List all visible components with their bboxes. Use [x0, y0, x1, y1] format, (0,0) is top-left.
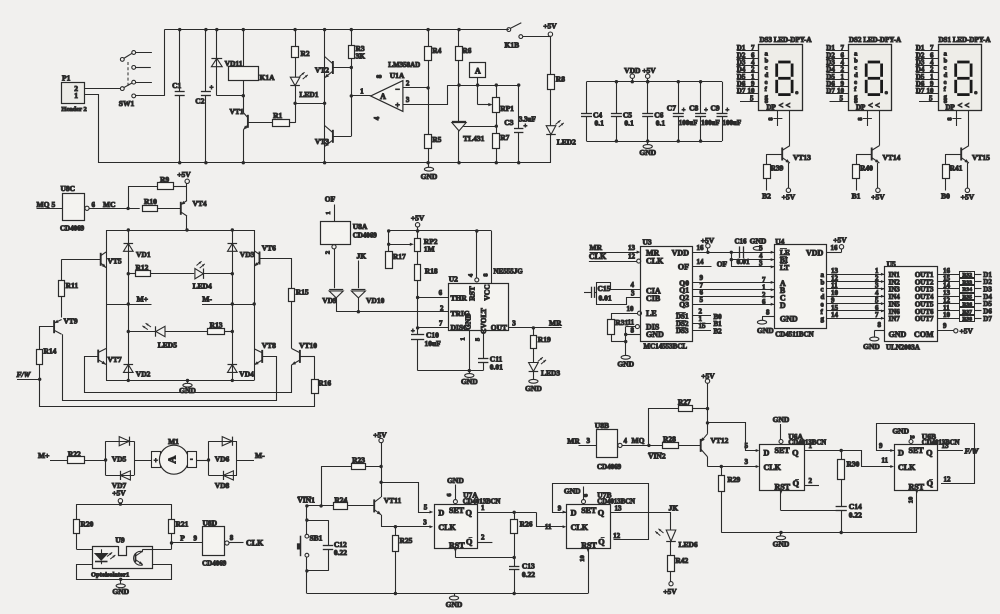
svg-text:VD6: VD6 [215, 455, 230, 464]
svg-text:3K: 3K [356, 52, 366, 61]
wire VT7 base loop [85, 357, 292, 393]
wire display DS1 to transistor [968, 111, 970, 146]
resistor R20 [76, 504, 78, 520]
wire U6A RST [780, 491, 782, 511]
wire VDD rail [587, 81, 723, 83]
wire Q0-Q3 bus to U4 [692, 282, 774, 284]
svg-text:D: D [898, 449, 904, 458]
svg-text:RST: RST [581, 541, 597, 550]
transistor VT12 [700, 439, 702, 452]
transistor VT6 [259, 252, 261, 265]
resistor R42 [670, 541, 672, 556]
svg-text:OF: OF [717, 259, 728, 268]
svg-text:5: 5 [745, 442, 749, 450]
svg-text:LE: LE [646, 309, 657, 318]
wire VIN1 node [307, 505, 334, 507]
capacitor C10 10uF [411, 334, 424, 336]
svg-text:0.22: 0.22 [334, 548, 347, 557]
svg-text:b: b [854, 58, 858, 65]
svg-text:11: 11 [545, 523, 552, 531]
svg-text:U9: U9 [115, 536, 124, 545]
svg-text:RP1: RP1 [500, 104, 514, 113]
resistor R3 3K [351, 30, 353, 45]
svg-text:VT12: VT12 [711, 436, 729, 445]
svg-text:M+: M+ [137, 295, 148, 304]
wire SW1 up to top rail [164, 30, 166, 96]
svg-text:GND: GND [617, 360, 634, 369]
resistor R27 [649, 409, 679, 446]
svg-text:R18: R18 [425, 267, 438, 276]
transistor VT8 [254, 304, 256, 380]
LED LED6 [670, 512, 672, 530]
svg-text:DS3: DS3 [676, 327, 689, 335]
svg-text:R12: R12 [136, 263, 149, 272]
resistor R5 [425, 135, 432, 149]
wire OUT pin3 MR net [509, 327, 562, 329]
+5V VDD terminals [630, 74, 634, 78]
diode VD3 [232, 230, 234, 304]
svg-text:Q: Q [466, 509, 473, 518]
resistor R30 [841, 451, 843, 460]
svg-text:2: 2 [481, 534, 485, 542]
svg-text:MQ: MQ [632, 436, 645, 445]
wire THR pin6 [418, 297, 448, 299]
wire RST pin4 to +5V rail [476, 231, 478, 278]
svg-text:R38: R38 [962, 317, 972, 323]
shunt regulator TL431 [458, 85, 460, 121]
svg-text:DS2 LED-DPY-A: DS2 LED-DPY-A [849, 36, 901, 44]
svg-text:CD4069: CD4069 [353, 232, 378, 240]
resistor R29 [721, 467, 723, 476]
svg-text:e: e [854, 79, 857, 86]
capacitor C7 100uF [678, 82, 680, 114]
capacitor C12 0.22 [307, 520, 328, 522]
svg-text:VD9: VD9 [322, 296, 337, 305]
diode VD10 [351, 289, 365, 291]
resistor R4 [428, 30, 430, 47]
svg-text:SB1: SB1 [310, 534, 323, 543]
display DS1 common pin stub [956, 111, 958, 126]
svg-text:LT: LT [780, 263, 789, 272]
svg-text:+5V: +5V [663, 587, 677, 596]
wire U8C output MC [89, 208, 140, 210]
svg-text:−: − [395, 85, 400, 94]
svg-text:IN7: IN7 [889, 315, 901, 323]
svg-text:VT15: VT15 [972, 153, 990, 162]
+5V at U3 VDD [706, 244, 710, 248]
svg-text:4: 4 [631, 281, 635, 289]
resistor R9 [128, 186, 130, 208]
wire opto top rail [77, 504, 172, 506]
svg-text:+5V: +5V [701, 371, 715, 380]
svg-text:6: 6 [92, 201, 96, 209]
transistor VT9 [61, 297, 63, 318]
net label CLK output [229, 542, 244, 544]
svg-text:CD4069: CD4069 [597, 463, 622, 471]
svg-text:D: D [780, 301, 786, 310]
svg-text:JK: JK [357, 252, 367, 261]
capacitor C6 0.1 [647, 82, 649, 114]
wire left high-side vertical [106, 230, 108, 304]
svg-text:Optoisolator1: Optoisolator1 [91, 572, 129, 579]
wire VT8 base loop [63, 334, 277, 400]
svg-text:d: d [765, 72, 769, 79]
wire R17 tap to RP2 wiper [389, 244, 411, 246]
svg-text:COM: COM [914, 330, 934, 339]
svg-text:U8C: U8C [61, 184, 76, 193]
svg-text:13: 13 [942, 442, 950, 450]
resistor R28 [663, 443, 679, 449]
svg-text:A: A [475, 66, 481, 75]
resistor R23 [321, 466, 351, 468]
svg-text:0.1: 0.1 [656, 118, 666, 127]
wire op-amp output pin1 [351, 95, 370, 97]
svg-text:+5V: +5V [782, 193, 796, 202]
capacitor C9 100uF [722, 82, 724, 114]
wire P1 pin1 down to bottom rail [84, 95, 551, 163]
svg-text:R22: R22 [68, 450, 81, 459]
svg-text:VT4: VT4 [193, 199, 207, 208]
svg-text:+5V: +5V [833, 236, 847, 245]
svg-text:6: 6 [439, 289, 443, 297]
resistor R40 [856, 154, 871, 156]
svg-text:LED6: LED6 [679, 540, 698, 549]
svg-text:OUT7: OUT7 [915, 315, 934, 323]
capacitor C4 0.1 [586, 82, 588, 114]
resistor R6 [458, 30, 460, 47]
svg-text:C2: C2 [195, 97, 204, 106]
svg-text:+5V: +5V [960, 327, 974, 336]
pushbutton SB1 [306, 506, 308, 534]
transistor VT1 [247, 115, 249, 128]
svg-text:Q3: Q3 [679, 300, 689, 309]
svg-text:14: 14 [697, 258, 705, 266]
LED LED5 [128, 331, 155, 333]
svg-text:1M: 1M [424, 245, 435, 254]
svg-text:R29: R29 [727, 475, 740, 484]
svg-text:SET: SET [581, 506, 597, 515]
svg-text:R28: R28 [663, 435, 676, 444]
svg-text:MC: MC [103, 200, 116, 209]
svg-text:Q: Q [926, 449, 933, 458]
ground under U4 [757, 320, 766, 324]
resistor R17 [388, 231, 390, 252]
wire OF pin14 [692, 266, 711, 268]
transistor VT7 [106, 304, 108, 380]
connector P1 Header 2 [62, 83, 85, 104]
transistor VT15 [960, 148, 962, 161]
svg-text:Q: Q [793, 479, 800, 488]
svg-text:C16: C16 [735, 238, 748, 246]
svg-text:R9: R9 [160, 175, 169, 184]
svg-text:SET: SET [449, 506, 465, 515]
ground U6 rail [780, 533, 782, 537]
wire +5V to U4 BI LT pins [731, 252, 733, 267]
resistor R41 [946, 154, 961, 156]
transistor VT4 [180, 202, 182, 215]
svg-text:MC14553BCL: MC14553BCL [644, 343, 688, 351]
svg-text:3: 3 [759, 259, 763, 267]
wire VT12 emitter to U6A CLK [708, 466, 757, 468]
svg-text:C8: C8 [689, 103, 698, 112]
LED LED3 [533, 349, 535, 362]
svg-text:VD8: VD8 [215, 481, 230, 490]
wire U7B D toggle loop [553, 484, 649, 540]
wire bottom ground rail [307, 593, 588, 595]
svg-text:CLK: CLK [246, 539, 264, 548]
+5V at VT4 [185, 179, 189, 183]
svg-text:< <: < < [868, 100, 880, 110]
svg-text:4: 4 [373, 116, 381, 120]
svg-text:R5: R5 [432, 135, 441, 144]
svg-text:VD5: VD5 [112, 455, 127, 464]
+5V supply top [548, 36, 550, 38]
svg-text:4: 4 [624, 437, 628, 445]
wire U8A out to VD9 [334, 249, 336, 288]
svg-text:+5V: +5V [543, 22, 557, 31]
ground under 555 [469, 371, 471, 374]
wire U6B RST down [916, 491, 918, 533]
svg-text:VCC: VCC [483, 284, 492, 300]
LED LED2 [546, 134, 556, 136]
ground under R5 [428, 163, 430, 168]
wire cap bottom rail [587, 141, 723, 143]
wire right high-side vertical [254, 230, 256, 304]
svg-text:R27: R27 [678, 398, 691, 407]
wire LED1 node to VT2 chain [295, 103, 325, 105]
ground under H-bridge [187, 380, 189, 383]
svg-text:C15: C15 [598, 284, 611, 293]
wire U6A Qbar stub [804, 485, 819, 487]
svg-text:R1: R1 [273, 111, 282, 120]
svg-text:Q: Q [927, 479, 934, 488]
op-amp U1A LM358AD [371, 81, 403, 112]
svg-text:OUT: OUT [491, 323, 507, 332]
svg-text:R17: R17 [393, 252, 406, 261]
svg-text:0.1: 0.1 [595, 118, 605, 127]
svg-text:DP: DP [767, 104, 777, 112]
meter A box [470, 63, 486, 78]
svg-text:VT8: VT8 [262, 341, 276, 350]
wire reference rail [448, 85, 519, 87]
svg-text:LED4: LED4 [193, 282, 212, 291]
svg-text:GND: GND [773, 415, 790, 424]
wire VT6 base to R15 [260, 258, 292, 260]
wire VT10 base to R16 [300, 356, 315, 358]
svg-text:VD1: VD1 [136, 250, 151, 259]
svg-text:100uF: 100uF [723, 119, 742, 127]
resistor R31 [608, 320, 615, 335]
svg-text:+: + [524, 123, 528, 130]
svg-text:R13: R13 [210, 321, 223, 330]
svg-text:M+: M+ [38, 451, 49, 460]
svg-text:3.3uF: 3.3uF [519, 116, 536, 124]
capacitor C2 [205, 30, 207, 92]
resistor R1 [248, 122, 272, 124]
resistor R39 [767, 154, 782, 156]
svg-text:U8A: U8A [353, 222, 368, 231]
svg-text:MQ: MQ [37, 200, 50, 209]
svg-text:F/W: F/W [17, 370, 32, 379]
wire VDD pin16 to +5V [692, 252, 774, 254]
svg-text:VT6: VT6 [262, 244, 276, 253]
svg-text:GND: GND [889, 330, 907, 339]
wire top supply rail [164, 29, 508, 31]
svg-text:U8B: U8B [595, 421, 609, 430]
transistor VT5 [100, 253, 102, 266]
capacitor C15 0.01 oscillator loop [610, 289, 641, 291]
svg-text:3: 3 [512, 320, 516, 328]
svg-text:+: + [154, 457, 158, 465]
wire VT11 collector to D pin [381, 483, 430, 513]
svg-text:13: 13 [615, 505, 623, 513]
display DS3 common pin stub [777, 111, 779, 126]
svg-text:100uF: 100uF [701, 119, 720, 127]
svg-text:b: b [765, 58, 769, 65]
svg-text:VT9: VT9 [64, 317, 78, 326]
svg-text:1: 1 [360, 88, 364, 96]
svg-text:11: 11 [881, 457, 888, 465]
svg-text:DP: DP [946, 104, 956, 112]
svg-text:9: 9 [879, 442, 883, 450]
svg-text:GND: GND [639, 148, 656, 157]
wire pin3 to reference rail [403, 85, 448, 104]
svg-text:+5V: +5V [961, 193, 975, 202]
svg-text:P: P [180, 534, 185, 543]
svg-text:1: 1 [460, 337, 467, 340]
resistor R25 [395, 527, 397, 536]
svg-text:GND: GND [421, 172, 438, 181]
svg-text:CLK: CLK [438, 523, 456, 532]
svg-text:5: 5 [424, 504, 428, 512]
svg-text:R24: R24 [334, 495, 347, 504]
svg-text:+: + [210, 84, 214, 92]
svg-text:VT5: VT5 [108, 257, 122, 266]
svg-text:R42: R42 [675, 556, 688, 565]
svg-text:0.1: 0.1 [624, 118, 634, 127]
wire U6A Q to R30 and U6B CLK [804, 450, 841, 452]
svg-text:R11: R11 [66, 281, 79, 290]
transistor VT11 [373, 499, 375, 512]
ground under R31 [621, 355, 630, 359]
wire GND pin1 [469, 331, 471, 371]
svg-text:GND: GND [112, 587, 129, 596]
svg-text:12: 12 [613, 532, 621, 540]
resistor R22 [68, 457, 85, 464]
svg-text:R40: R40 [860, 164, 873, 173]
svg-text:SW1: SW1 [119, 99, 135, 108]
svg-text:R35: R35 [962, 295, 972, 301]
svg-text:GND: GND [780, 315, 798, 324]
svg-text:RST: RST [909, 482, 925, 491]
svg-text:12: 12 [628, 253, 636, 261]
wire ground line U6 [721, 532, 917, 534]
ground bottom rail [454, 594, 456, 597]
svg-text:R2: R2 [301, 49, 310, 58]
svg-text:7: 7 [439, 320, 443, 328]
svg-text:R10: R10 [144, 197, 157, 206]
svg-text:VD3: VD3 [240, 250, 255, 259]
+5V below VT13 [786, 188, 790, 192]
svg-text:VD2: VD2 [136, 370, 151, 379]
wire VT2/VT3 vertical [324, 30, 326, 163]
wire opto bottom loop [77, 565, 172, 580]
resistor R10 [143, 206, 158, 212]
diode VD4 [232, 304, 234, 380]
svg-text:10: 10 [627, 305, 635, 313]
svg-text:VT14: VT14 [883, 153, 901, 162]
wire U5 GND pin8 [874, 330, 884, 332]
resistor R2 [295, 30, 297, 47]
svg-text:VT3: VT3 [315, 137, 329, 146]
svg-text:8: 8 [878, 321, 882, 329]
capacitor C13 0.22 [509, 566, 519, 568]
svg-text:C9: C9 [711, 103, 720, 112]
svg-text:1: 1 [325, 211, 332, 214]
svg-text:10: 10 [908, 497, 915, 504]
svg-text:CLK: CLK [764, 463, 782, 472]
svg-text:LED3: LED3 [541, 369, 560, 378]
svg-text:JK: JK [669, 504, 679, 513]
svg-text:b: b [944, 58, 948, 65]
svg-text:e: e [765, 79, 768, 86]
svg-text:GND: GND [461, 377, 478, 386]
svg-text:R26: R26 [520, 520, 533, 529]
svg-text:SET: SET [909, 446, 925, 455]
wire DS1-DS3 outputs B0 B1 B2 [692, 315, 711, 317]
svg-text:8: 8 [766, 309, 770, 317]
capacitor C5 0.1 [616, 82, 618, 114]
svg-text:+: + [726, 107, 730, 114]
svg-text:CLK: CLK [571, 523, 589, 532]
wire +5V rail to RST [389, 230, 492, 232]
svg-text:1: 1 [74, 91, 78, 100]
svg-text:-: - [190, 455, 193, 464]
svg-text:GND: GND [892, 427, 909, 436]
diode VD5 / VD7 bridge left [106, 441, 134, 443]
transistor VT10 [299, 350, 301, 363]
svg-text:DP: DP [856, 104, 866, 112]
svg-text:d: d [944, 72, 948, 79]
svg-text:A: A [380, 92, 386, 101]
capacitor C3 3.3uF [518, 85, 520, 129]
svg-text:CLK: CLK [646, 257, 664, 266]
LED LED4 [203, 269, 205, 279]
svg-text:C3: C3 [504, 118, 513, 127]
svg-text:2: 2 [406, 80, 410, 88]
svg-text:SET: SET [775, 446, 791, 455]
svg-text:+5V: +5V [871, 193, 885, 202]
svg-text:GND: GND [757, 326, 774, 335]
wire H-bridge bottom rail [106, 380, 254, 382]
wire U6A D from collector node [708, 423, 757, 451]
svg-text:LED5: LED5 [158, 341, 177, 350]
svg-text:RST: RST [775, 482, 791, 491]
capacitor C16 0.01 [739, 246, 741, 258]
resistor R8 [550, 37, 552, 75]
resistor R15 [289, 289, 295, 302]
svg-text:THR: THR [451, 293, 468, 302]
svg-text:D: D [571, 509, 577, 518]
svg-text:R20: R20 [81, 520, 94, 529]
svg-text:c: c [944, 65, 947, 72]
svg-text:g: g [821, 315, 825, 323]
svg-text:5: 5 [700, 296, 704, 304]
svg-text:DS3 LED-DPY-A: DS3 LED-DPY-A [760, 36, 812, 44]
svg-text:9: 9 [194, 535, 198, 543]
svg-text:2: 2 [325, 251, 332, 254]
svg-text:K1A: K1A [260, 73, 276, 82]
